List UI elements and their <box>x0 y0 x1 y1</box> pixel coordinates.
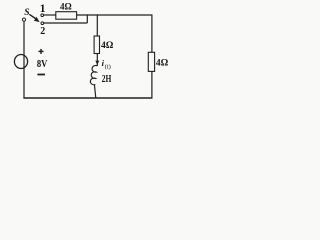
switch S pole contact <box>22 18 25 21</box>
svg-text:4Ω: 4Ω <box>101 41 114 51</box>
svg-text:4Ω: 4Ω <box>156 59 169 69</box>
svg-text:S: S <box>24 8 29 18</box>
wire: top node down to R2 top <box>96 14 98 36</box>
resistor R3 (right) <box>148 52 154 71</box>
wire: R2 bottom to inductor top (current arrow segment) <box>96 54 98 67</box>
wire: R3 bottom to bottom-right corner <box>151 71 153 98</box>
svg-text:4Ω: 4Ω <box>60 1 72 11</box>
wire: left vertical through source <box>23 21 25 98</box>
current label i(t) <box>102 58 111 70</box>
wire: inductor bottom to bottom rail <box>95 87 96 99</box>
node 1 contact <box>41 14 44 17</box>
wire: top node from contact 1 to R1 left <box>44 14 56 16</box>
background <box>0 0 181 105</box>
svg-text:1: 1 <box>40 3 46 15</box>
wire: R1 right to top-right corner and down to R3 top <box>77 15 152 52</box>
voltage source minus sign <box>37 74 45 76</box>
voltage source plus sign <box>39 49 44 54</box>
inductor L1 (2H coil) <box>90 65 97 86</box>
voltage source V1 <box>14 55 27 69</box>
resistor R2 (middle) <box>94 36 99 54</box>
wire: contact 2 to junction <box>44 22 88 24</box>
svg-text:8V: 8V <box>37 58 48 70</box>
current arrow i(t) <box>95 61 99 65</box>
wire: junction vertical up to top node <box>86 14 88 23</box>
node 2 contact <box>41 22 44 25</box>
resistor R1 (top) <box>56 12 77 20</box>
svg-text:(t): (t) <box>105 63 111 70</box>
switch S blade arrow <box>29 14 39 22</box>
wire: bottom rail <box>23 97 152 99</box>
svg-text:2: 2 <box>40 26 45 37</box>
svg-text:2H: 2H <box>102 74 112 85</box>
